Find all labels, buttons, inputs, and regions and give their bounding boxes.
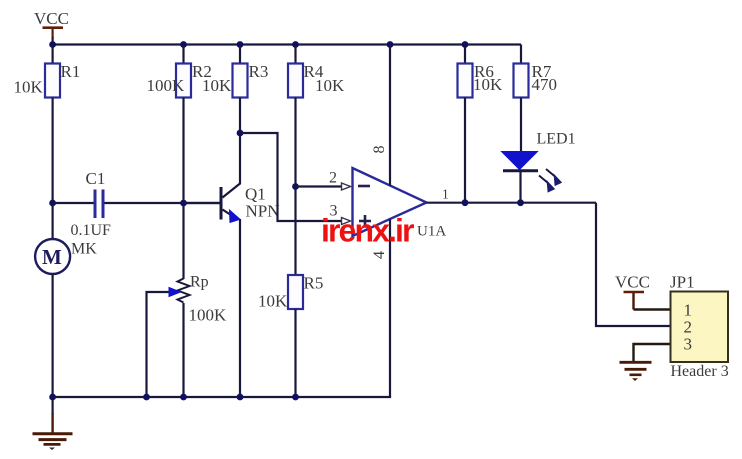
potentiometer Rp (147, 274, 228, 398)
svg-text:NPN: NPN (246, 202, 280, 221)
wire JP1 pin3 stub (634, 344, 671, 361)
svg-text:100K: 100K (147, 76, 186, 95)
svg-text:10K: 10K (258, 292, 288, 311)
ground (JP1) (620, 362, 652, 381)
svg-text:2: 2 (329, 170, 337, 187)
ground (main, bottom left) (33, 397, 73, 450)
node junction bus/Rp bottom (180, 394, 187, 401)
svg-text:8: 8 (371, 146, 388, 154)
node junction R1/C1 (49, 200, 56, 207)
transistor Q1 (184, 133, 280, 397)
svg-text:10K: 10K (315, 76, 345, 95)
node junction ground/mic (49, 394, 56, 401)
svg-text:JP1: JP1 (670, 273, 695, 292)
svg-text:10K: 10K (202, 76, 232, 95)
svg-text:10K: 10K (473, 75, 503, 94)
node junction VCC/R1 (49, 41, 56, 48)
wire collector to opamp pin3 (240, 133, 342, 221)
svg-text:VCC: VCC (615, 273, 650, 292)
resistor R7 (514, 45, 558, 152)
wire bottom bus (53, 396, 390, 397)
node junction bus/R3 (237, 41, 244, 48)
wire output to JP1 pin2 (596, 203, 670, 326)
svg-text:U1A: U1A (417, 224, 446, 240)
svg-text:1: 1 (442, 187, 449, 202)
resistor R2 (147, 45, 212, 280)
svg-text:MK: MK (71, 241, 97, 258)
wire opamp output (427, 202, 597, 204)
svg-text:470: 470 (532, 75, 558, 94)
resistor R4 (288, 45, 345, 276)
svg-text:0.1UF: 0.1UF (71, 222, 112, 239)
node junction bus/R4 (292, 41, 299, 48)
svg-text:M: M (42, 245, 62, 269)
svg-text:irenx.ir: irenx.ir (321, 213, 414, 249)
svg-text:3: 3 (684, 335, 693, 354)
node junction R3/collector (237, 130, 244, 137)
node junction bus/R6 (462, 41, 469, 48)
node junction bus/emitter (237, 394, 244, 401)
node junction output/LED (517, 199, 524, 206)
svg-text:R1: R1 (61, 62, 81, 81)
wire top bus (53, 43, 521, 45)
resistor R5 (258, 274, 323, 398)
node junction bus/Rp wiper (143, 394, 150, 401)
VCC power symbol (top left) (34, 9, 69, 45)
svg-text:10K: 10K (14, 78, 44, 97)
svg-text:R5: R5 (304, 274, 324, 293)
node junction bus/R5 (292, 394, 299, 401)
wire R4 tap to opamp pin2 (296, 185, 342, 187)
resistor R3 (202, 45, 268, 134)
microphone MK (35, 203, 97, 397)
node junction bus/opamp pin8 (387, 41, 394, 48)
resistor R6 (458, 45, 504, 203)
svg-text:C1: C1 (86, 169, 106, 188)
svg-text:100K: 100K (189, 306, 228, 325)
svg-text:LED1: LED1 (537, 131, 576, 148)
LED LED1 (502, 131, 576, 203)
svg-text:VCC: VCC (34, 9, 69, 28)
op-amp U1A (329, 45, 449, 398)
VCC power symbol (JP1) (615, 273, 650, 310)
node junction R2/base (180, 200, 187, 207)
connector JP1 header box (670, 273, 729, 381)
wire JP1 pin1 stub (634, 308, 671, 310)
node junction R4/R5 pin2 tap (292, 183, 299, 190)
node junction bus/R2 (180, 41, 187, 48)
svg-text:Rp: Rp (190, 274, 209, 291)
node junction output/R6 (462, 199, 469, 206)
svg-text:R3: R3 (249, 62, 269, 81)
capacitor C1 (53, 169, 220, 239)
resistor R1 (14, 45, 81, 204)
svg-text:4: 4 (371, 251, 388, 259)
svg-text:Header 3: Header 3 (671, 363, 729, 380)
